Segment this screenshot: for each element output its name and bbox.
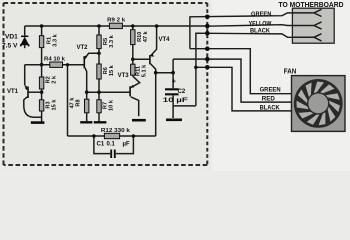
wire: YELLOW +12V to motherboard [205,21,292,28]
wire: GREEN tach to motherboard [190,12,293,49]
wire: VT2 collector to VT3 base [87,91,130,93]
svg-text:RED: RED [262,97,276,103]
wire: BLACK ground to motherboard [173,29,292,106]
resistor R9 2k [107,18,126,29]
resistor R1 3.3k [39,24,58,66]
svg-text:C1: C1 [97,141,105,147]
svg-text:TO MOTHERBOARD: TO MOTHERBOARD [279,0,344,9]
resistor R4 10k [44,56,84,67]
svg-text:10 µF: 10 µF [163,98,189,104]
svg-text:VT2: VT2 [77,45,89,51]
ground (R3 / VT1) [31,121,45,124]
wire: fan RED [173,57,291,103]
svg-text:BLACK: BLACK [250,29,271,35]
svg-text:10 k: 10 k [108,99,114,111]
capacitor C1 0.1uF loop [92,134,135,158]
fan [284,69,345,132]
svg-text:YELLOW: YELLOW [249,21,272,27]
wire: VT4 collector to C2 [156,72,173,74]
zener diode VD1 7.5V [24,26,26,48]
svg-text:15 k: 15 k [51,99,57,111]
ground (R7) [94,121,107,123]
svg-text:VD1: VD1 [5,33,18,40]
svg-text:+: + [172,79,176,86]
svg-text:15 k: 15 k [109,64,115,76]
svg-text:FAN: FAN [284,69,297,76]
svg-text:5.1 k: 5.1 k [141,64,147,77]
svg-text:R9 2 k: R9 2 k [107,18,126,24]
resistor R8 47k [70,92,89,121]
resistor R6 15k [97,53,115,92]
resistor R2 2k [39,65,57,94]
capacitor C2 10uF [163,59,189,118]
svg-text:C2: C2 [178,89,186,95]
svg-text:3.3 k: 3.3 k [52,33,58,46]
resistor R3 15k [39,92,57,122]
ground (C2) [166,119,182,122]
motherboard connector [279,0,344,43]
wire top rail +12V [25,25,207,27]
wire bottom rail [68,135,156,137]
resistor R10 47k [131,24,149,61]
svg-text:47 k: 47 k [143,30,149,42]
svg-text:GREEN: GREEN [251,12,271,18]
svg-text:7.5 V: 7.5 V [2,42,18,49]
svg-text:µF: µF [123,141,130,147]
svg-text:3.3 k: 3.3 k [109,34,115,47]
transistor VT1 [7,85,42,117]
svg-text:R8: R8 [75,99,81,106]
svg-text:GREEN: GREEN [260,87,281,93]
svg-text:BLACK: BLACK [260,106,281,112]
resistor R11 5.1k [131,59,148,77]
svg-text:VT3: VT3 [118,73,130,79]
resistor R7 10k [97,92,115,121]
svg-text:VT1: VT1 [7,89,19,95]
ground (VT3) [132,119,146,122]
transistor VT3 [118,73,140,117]
svg-text:2 k: 2 k [51,75,57,84]
svg-text:R12 330 k: R12 330 k [101,128,131,134]
wire: fan GREEN [190,46,292,93]
node: VD1/VT1/R4 wire [25,64,50,66]
transistor VT2 [77,45,99,92]
svg-text:R4 10 k: R4 10 k [44,56,66,62]
resistor R12 330k [101,128,131,139]
wire VD1 column down to VT1 emitter [24,65,26,85]
transistor VT4 [150,24,170,136]
resistor R5 3.3k [97,24,115,55]
wire: fan BLACK [194,65,291,112]
dashed enclosure box [4,3,208,165]
svg-text:0.1: 0.1 [107,141,116,147]
ground (R8) [80,121,92,123]
wire: R10/R11 node to VT4 base [133,58,150,60]
wire: drop to bottom rail [67,65,69,136]
svg-text:VT4: VT4 [159,37,171,43]
